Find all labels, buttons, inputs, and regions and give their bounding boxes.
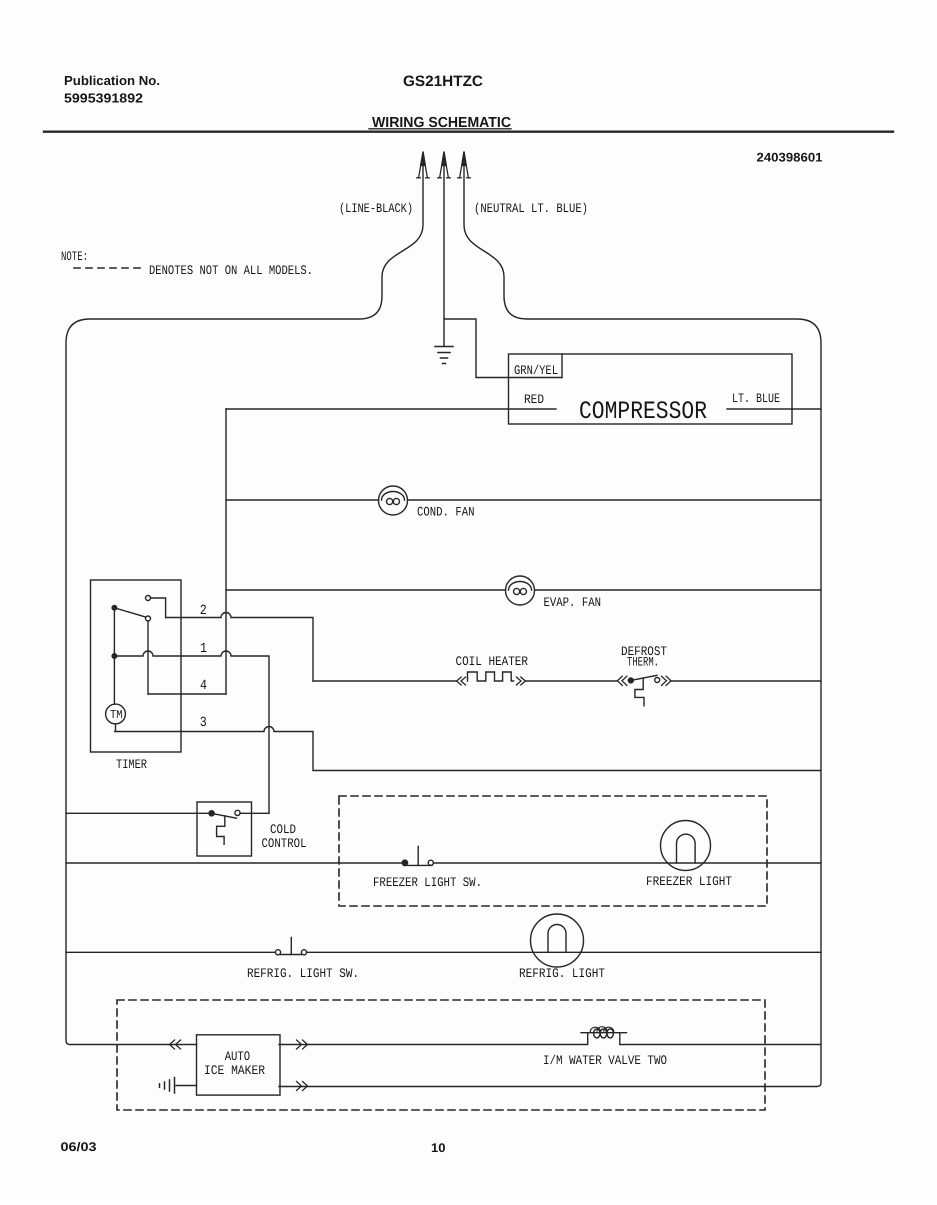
svg-text:06/03: 06/03 [61,1140,97,1154]
svg-text:COND. FAN: COND. FAN [417,505,475,520]
svg-text:3: 3 [200,715,207,731]
svg-text:REFRIG. LIGHT SW.: REFRIG. LIGHT SW. [247,966,359,981]
svg-text:NOTE:: NOTE: [61,249,88,264]
svg-text:DENOTES NOT ON ALL MODELS.: DENOTES NOT ON ALL MODELS. [149,263,313,278]
svg-text:5995391892: 5995391892 [64,91,143,106]
svg-text:COIL HEATER: COIL HEATER [456,654,529,669]
svg-text:COMPRESSOR: COMPRESSOR [579,397,707,426]
svg-text:REFRIG. LIGHT: REFRIG. LIGHT [519,966,605,981]
svg-text:THERM.: THERM. [627,655,659,670]
svg-text:1: 1 [200,641,207,657]
svg-text:COLD: COLD [270,822,296,837]
svg-text:RED: RED [524,392,544,407]
svg-text:240398601: 240398601 [757,151,823,165]
svg-text:AUTO: AUTO [225,1049,251,1064]
svg-text:FREEZER LIGHT: FREEZER LIGHT [646,874,732,889]
svg-text:(LINE-BLACK): (LINE-BLACK) [339,201,413,216]
svg-text:WIRING SCHEMATIC: WIRING SCHEMATIC [372,115,511,131]
svg-text:I/M WATER VALVE TWO: I/M WATER VALVE TWO [543,1053,667,1068]
svg-text:FREEZER LIGHT SW.: FREEZER LIGHT SW. [373,875,482,890]
svg-text:GRN/YEL: GRN/YEL [514,363,558,378]
svg-text:4: 4 [200,678,207,694]
svg-text:GS21HTZC: GS21HTZC [403,73,483,90]
svg-text:TIMER: TIMER [116,757,147,772]
svg-text:TM: TM [110,708,123,722]
svg-text:CONTROL: CONTROL [262,836,307,851]
svg-text:LT. BLUE: LT. BLUE [732,391,780,406]
svg-text:2: 2 [200,603,207,619]
svg-text:10: 10 [431,1141,446,1155]
svg-text:EVAP. FAN: EVAP. FAN [544,595,602,610]
svg-text:ICE MAKER: ICE MAKER [204,1063,265,1078]
svg-text:(NEUTRAL LT. BLUE): (NEUTRAL LT. BLUE) [474,201,588,216]
svg-text:Publication No.: Publication No. [64,73,160,88]
